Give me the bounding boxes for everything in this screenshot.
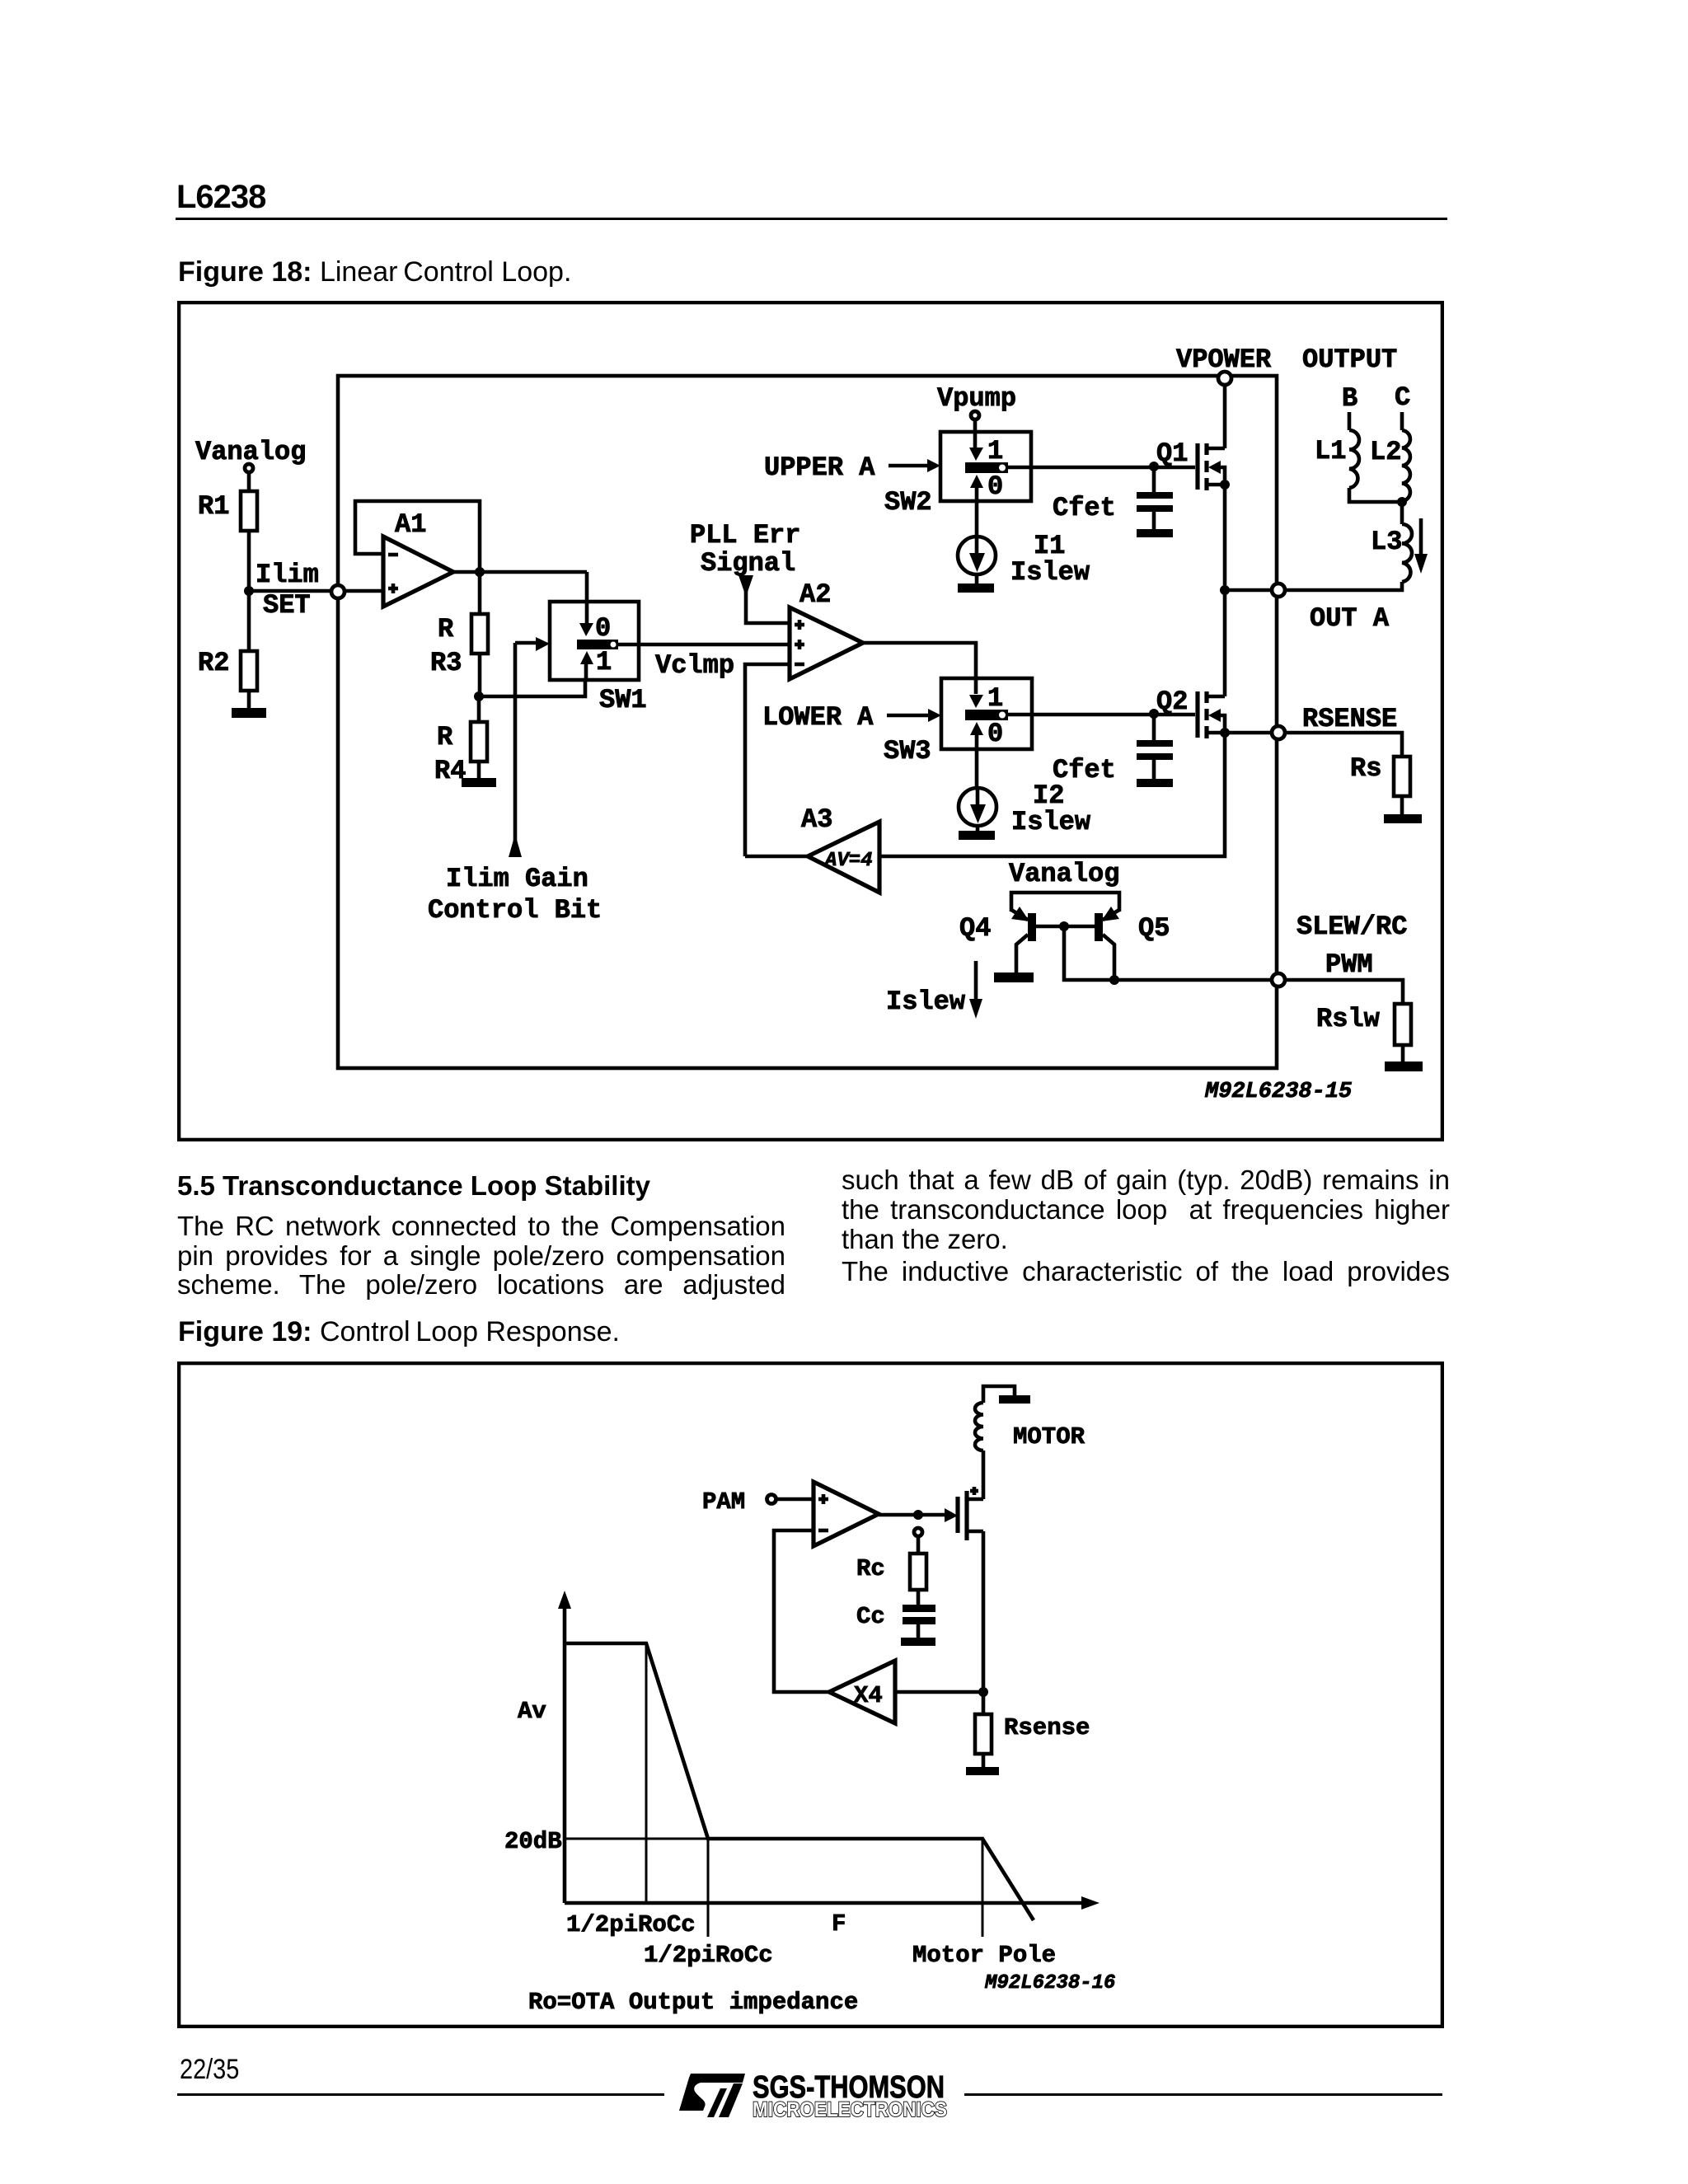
pin OUT A terminal — [1272, 583, 1285, 597]
svg-text:Rsense: Rsense — [1004, 1714, 1090, 1741]
caption figure 19 — [178, 1316, 620, 1348]
svg-text:Q1: Q1 — [1156, 438, 1188, 469]
wire UPPER A arrow into SW2 — [889, 464, 930, 468]
svg-text:A2: A2 — [799, 579, 831, 610]
svg-text:RSENSE: RSENSE — [1302, 704, 1397, 734]
graph pole reference line 1 — [645, 1643, 648, 1903]
wire base down to SLEW/RC net — [1064, 926, 1271, 980]
wire Ilim node to R2 — [247, 591, 251, 651]
svg-text:R3: R3 — [430, 648, 462, 678]
svg-text:OUT A: OUT A — [1310, 603, 1390, 634]
svg-text:R1: R1 — [198, 491, 229, 522]
transistor Q1 — [1156, 438, 1230, 490]
wire feedback loop to X4 — [774, 1530, 829, 1692]
amplifier X4 — [829, 1661, 895, 1723]
capacitor Cc — [856, 1603, 935, 1630]
wire SW1 output Vclmp to A2 — [618, 643, 790, 647]
svg-text:SET: SET — [263, 590, 311, 621]
svg-text:M92L6238-16: M92L6238-16 — [984, 1972, 1115, 1994]
wire junction to OUT A pin — [1225, 588, 1271, 593]
svg-text:PWM: PWM — [1325, 949, 1373, 980]
svg-text:C: C — [1395, 382, 1410, 413]
header rule — [176, 218, 1447, 220]
wire Q1 source down to OUT A — [1223, 485, 1227, 590]
svg-text:M92L6238-15: M92L6238-15 — [1204, 1080, 1352, 1104]
svg-text:UPPER A: UPPER A — [764, 452, 875, 483]
node Q5 collector junction — [1109, 975, 1119, 985]
node A1 output junction — [475, 567, 485, 577]
svg-text:SW2: SW2 — [884, 487, 932, 518]
wire motor to Q drain — [982, 1451, 986, 1499]
footer page number — [180, 2054, 239, 2086]
transistor Q (power MOSFET) — [958, 1487, 983, 1540]
wire Q source down — [982, 1531, 986, 1714]
svg-text:MICROELECTRONICS: MICROELECTRONICS — [753, 2098, 947, 2121]
ground (below Cfet Q1) — [1137, 529, 1173, 537]
header: part number L6238 — [176, 179, 265, 216]
capacitor Cfet (Q1 gate) — [1053, 492, 1173, 523]
inductor L3 — [1371, 502, 1412, 582]
resistor Rslw — [1316, 1004, 1411, 1045]
svg-text:OUTPUT: OUTPUT — [1302, 344, 1397, 375]
svg-text:X4: X4 — [854, 1682, 883, 1709]
svg-text:Q2: Q2 — [1156, 687, 1188, 717]
node L1/L2/L3 junction — [1397, 497, 1407, 507]
svg-text:L1: L1 — [1315, 436, 1346, 466]
ground (below Cc) — [901, 1638, 935, 1646]
wire Cc to ground — [917, 1624, 921, 1638]
graph 20dB level line — [565, 1838, 708, 1840]
wire SET pin to A1 + input — [345, 589, 383, 593]
capacitor Cfet (Q2 gate) — [1053, 740, 1173, 785]
svg-text:1: 1 — [987, 683, 1003, 714]
FIGURE 18 SCHEMATIC — [177, 301, 1444, 1141]
wire SW2 output to Q1 gate — [1008, 466, 1195, 470]
wire VPOWER to Q1 drain — [1223, 385, 1227, 448]
svg-text:Cc: Cc — [856, 1603, 885, 1630]
svg-text:0: 0 — [987, 719, 1003, 749]
wire R4 to ground — [477, 762, 481, 778]
wire R1 to Ilim node — [247, 531, 251, 591]
resistor R2 — [198, 648, 257, 691]
svg-text:Cfet: Cfet — [1053, 755, 1116, 785]
svg-text:Rs: Rs — [1350, 753, 1381, 784]
ground (below Cfet Q2) — [1137, 779, 1173, 787]
svg-text:L3: L3 — [1371, 527, 1402, 557]
graph zero reference line — [707, 1839, 710, 1937]
wire Islew annotation arrow — [974, 961, 978, 999]
svg-text:0: 0 — [987, 471, 1003, 502]
switch SW3 — [884, 678, 1032, 788]
ground (below Rs) — [1384, 814, 1422, 823]
svg-text:1/2piRoCc: 1/2piRoCc — [566, 1911, 696, 1938]
amplifier A3 (AV.4) — [801, 804, 879, 893]
wire Q2 source down to A3 input — [879, 733, 1225, 856]
resistor R1 — [198, 491, 257, 531]
op-amp A2 — [790, 579, 863, 679]
wire Q4/Q5 base tie — [1036, 925, 1095, 929]
pin SET terminal — [331, 585, 345, 598]
svg-text:Vpump: Vpump — [937, 383, 1016, 414]
FIGURE 19 SCHEMATIC — [177, 1361, 1444, 2028]
node Q1 gate junction — [1149, 462, 1159, 471]
wire A1 output down into SW1 — [585, 572, 589, 626]
graph gain curve — [565, 1643, 1034, 1920]
svg-text:Islew: Islew — [886, 987, 966, 1017]
wire motor supply flag — [983, 1386, 1015, 1403]
wire junction to SW1 bottom — [479, 680, 585, 696]
resistor R4 — [434, 722, 487, 786]
svg-text:LOWER A: LOWER A — [762, 702, 874, 733]
ground (below Rslw) — [1385, 1062, 1423, 1071]
svg-text:20dB: 20dB — [504, 1828, 562, 1855]
wire R2 to ground — [247, 691, 251, 708]
svg-text:AV=4: AV=4 — [823, 850, 873, 872]
op-amp U1 (PAM buffer) — [814, 1482, 879, 1546]
wire junction to R4 — [477, 696, 481, 722]
svg-text:Rslw: Rslw — [1316, 1004, 1381, 1034]
inductor L2 — [1370, 412, 1410, 501]
svg-text:R4: R4 — [434, 756, 466, 786]
svg-text:Av: Av — [518, 1698, 546, 1725]
resistor Rs — [1350, 753, 1410, 796]
wire A2 - input from A3 — [745, 664, 790, 856]
transistor Q4 — [959, 907, 1032, 972]
wire SW3 output to Q2 gate — [1008, 713, 1195, 717]
node PAM input terminal — [767, 1495, 776, 1504]
transistor Q2 — [1156, 687, 1225, 738]
wire control bit vertical — [513, 643, 518, 857]
inductor L1 — [1315, 412, 1359, 488]
wire PAM to op-amp — [776, 1497, 814, 1502]
svg-text:0: 0 — [595, 613, 611, 644]
left column paragraph — [177, 1212, 785, 1300]
ground (below R2) — [232, 708, 266, 718]
svg-text:1: 1 — [596, 647, 612, 677]
graph Y axis Av — [563, 1602, 567, 1903]
svg-text:SLEW/RC: SLEW/RC — [1296, 912, 1407, 942]
svg-text:Control Bit: Control Bit — [428, 895, 602, 926]
wire A1 output to R3 — [478, 572, 482, 614]
caption figure 18 — [178, 256, 571, 288]
svg-text:1: 1 — [987, 436, 1003, 466]
svg-text:Ilim Gain: Ilim Gain — [446, 864, 588, 894]
IC boundary box — [338, 376, 1277, 1068]
svg-text:Motor Pole: Motor Pole — [912, 1942, 1056, 1969]
wire junction down to Cfet — [1152, 714, 1156, 740]
svg-text:PAM: PAM — [702, 1488, 745, 1516]
wire Rslw to ground — [1401, 1045, 1405, 1062]
svg-text:Q5: Q5 — [1138, 913, 1170, 944]
right column paragraph 2 — [842, 1257, 1450, 1286]
wire L3 current direction arrow — [1419, 518, 1423, 554]
svg-text:1/2piRoCc: 1/2piRoCc — [644, 1942, 773, 1969]
svg-text:R: R — [438, 614, 454, 644]
node Q2 gate junction — [1149, 709, 1159, 719]
graph X axis F — [565, 1901, 1088, 1905]
wire Rc to Cc — [917, 1590, 921, 1605]
op-amp A1 — [383, 509, 453, 607]
right column paragraph 1 — [842, 1165, 1450, 1254]
svg-text:MOTOR: MOTOR — [1013, 1423, 1085, 1451]
wire Ilim gain control into SW1 — [515, 641, 540, 645]
wire Rsense to ground — [982, 1754, 986, 1767]
pin SLEW/RC terminal — [1272, 973, 1285, 987]
wire X4 input from Rsense node — [895, 1690, 983, 1694]
footer SGS-THOMSON logo — [676, 2064, 1006, 2126]
wire op-amp output to gate — [879, 1513, 946, 1517]
wire junction down to Cfet — [1152, 466, 1156, 492]
wire I1 to ground — [975, 574, 979, 584]
node R3/R4 junction — [474, 691, 484, 701]
wire PLL Err signal arrow into A2 — [746, 576, 790, 623]
svg-text:Islew: Islew — [1011, 807, 1091, 837]
svg-text:Q4: Q4 — [959, 913, 991, 944]
node compensation junction — [913, 1510, 923, 1520]
node OUT A junction on Q1/Q2 column — [1220, 585, 1230, 595]
svg-text:L2: L2 — [1370, 437, 1401, 467]
wire A2 output to SW3 — [863, 643, 976, 694]
wire Vpump into SW2 — [973, 420, 978, 448]
inductor MOTOR winding — [975, 1403, 1085, 1451]
current source I1 Islew — [958, 531, 1090, 588]
pin VPOWER terminal on IC top edge — [1218, 372, 1231, 385]
node compensation pin — [914, 1528, 922, 1536]
wire Vanalog to R1 — [247, 473, 251, 491]
ground (below Rsense) — [966, 1767, 999, 1775]
svg-text:Rc: Rc — [856, 1555, 885, 1582]
wire Q2 source to RSENSE pin — [1225, 731, 1271, 735]
node Vanalog (top left) — [195, 437, 306, 472]
figure 19 outer border frame — [179, 1363, 1442, 2027]
wire A3 output to A2 - input — [745, 855, 808, 859]
switch SW1 — [550, 602, 647, 715]
svg-text:Cfet: Cfet — [1053, 493, 1116, 523]
wire I2 to ground — [976, 826, 980, 832]
wire Vanalog rail Q4/Q5 emitters — [1011, 893, 1119, 912]
footer left rule — [177, 2093, 664, 2096]
svg-text:Islew: Islew — [1010, 557, 1090, 588]
pin RSENSE terminal — [1272, 726, 1285, 739]
wire to Rc — [917, 1535, 921, 1554]
wire Rs to ground — [1400, 796, 1404, 814]
resistor R3 — [430, 614, 488, 678]
ground (below Q4) — [994, 972, 1034, 982]
svg-text:Vclmp: Vclmp — [655, 650, 734, 681]
section heading 5.5 — [177, 1170, 650, 1202]
wire A1 feedback loop — [355, 501, 480, 572]
node Vpump terminal — [937, 383, 1016, 419]
node Q2 source junction — [1220, 728, 1230, 738]
svg-text:Ro=OTA Output impedance: Ro=OTA Output impedance — [528, 1989, 858, 2016]
ST logo mark — [679, 2074, 745, 2117]
node Ilim junction — [244, 586, 254, 596]
wire SLEW/RC to Rslw — [1286, 980, 1403, 1004]
ground (below R4) — [462, 778, 496, 787]
wire R3 to node — [478, 654, 482, 696]
wire A1 output — [453, 570, 587, 574]
wire RSENSE to Rs — [1286, 733, 1402, 757]
switch SW2 — [884, 432, 1031, 537]
svg-text:F: F — [832, 1910, 846, 1938]
svg-text:B: B — [1342, 383, 1357, 414]
resistor Rc — [856, 1554, 926, 1590]
svg-text:A3: A3 — [801, 804, 832, 835]
graph motor pole reference line — [982, 1839, 984, 1937]
wire L3 to OUT A — [1286, 582, 1402, 590]
wire Ilim node to SET pin — [249, 589, 331, 593]
svg-text:SW3: SW3 — [884, 736, 931, 766]
transistor Q5 — [1099, 907, 1170, 980]
ground (motor supply bar) — [999, 1395, 1030, 1404]
wire LOWER A arrow into SW3 — [887, 714, 931, 718]
resistor Rsense — [975, 1714, 1090, 1754]
ground (below I1) — [958, 583, 994, 593]
svg-text:SW1: SW1 — [599, 685, 647, 715]
svg-text:PLL Err: PLL Err — [690, 520, 800, 551]
svg-text:Vanalog: Vanalog — [1009, 859, 1119, 889]
wire Cfet to ground — [1152, 760, 1156, 779]
node base junction — [1059, 921, 1069, 931]
ground (below I2) — [959, 831, 995, 840]
svg-text:Ilim: Ilim — [256, 560, 319, 590]
current source I2 Islew — [959, 780, 1091, 837]
footer right rule — [964, 2093, 1442, 2096]
svg-text:Signal: Signal — [701, 548, 795, 579]
svg-text:A1: A1 — [395, 509, 426, 540]
wire Cfet to ground — [1152, 512, 1156, 529]
wire OUT A to Q2 drain — [1223, 590, 1227, 696]
wire L1 bottom to junction — [1349, 488, 1403, 502]
figure 18 outer border frame — [179, 302, 1442, 1140]
svg-text:R2: R2 — [198, 648, 229, 678]
node Rsense junction — [978, 1687, 988, 1697]
svg-text:R: R — [437, 722, 453, 752]
